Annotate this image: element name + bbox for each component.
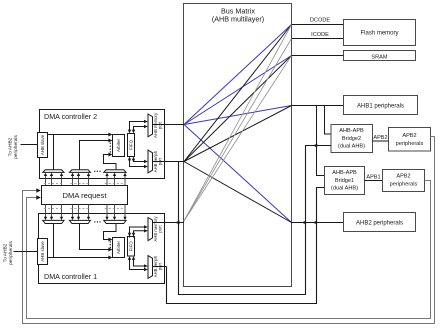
svg-text:DCODE: DCODE	[310, 18, 330, 24]
svg-text:peripherals: peripherals	[396, 141, 424, 147]
svg-text:(dual AHB): (dual AHB)	[331, 186, 358, 192]
svg-text:port: port	[158, 157, 163, 165]
svg-text:APB2: APB2	[402, 133, 416, 139]
svg-text:DMA controller 2: DMA controller 2	[44, 112, 97, 121]
svg-text:Flash memory: Flash memory	[360, 31, 398, 37]
svg-text:Bridge2: Bridge2	[342, 136, 361, 142]
svg-text:To AHB2: To AHB2	[8, 137, 14, 156]
svg-text:port: port	[158, 262, 163, 270]
svg-text:(AHB multilayer): (AHB multilayer)	[212, 15, 264, 24]
svg-text:SRAM: SRAM	[371, 54, 388, 60]
svg-text:Arbiter: Arbiter	[116, 138, 121, 151]
svg-text:AHB slave: AHB slave	[40, 134, 45, 155]
svg-text:AHB-APB: AHB-APB	[339, 128, 364, 134]
svg-text:APB1: APB1	[366, 175, 380, 181]
svg-text:To AHB2: To AHB2	[3, 243, 9, 262]
svg-text:AHB-APB: AHB-APB	[332, 170, 357, 176]
svg-text:DMA controller 1: DMA controller 1	[44, 272, 97, 281]
svg-text:(dual AHB): (dual AHB)	[338, 144, 365, 150]
svg-text:peripherals: peripherals	[390, 182, 418, 188]
svg-text:peripherals: peripherals	[8, 241, 14, 265]
svg-text:AHB1 peripherals: AHB1 peripherals	[357, 104, 404, 110]
svg-text:Arbiter: Arbiter	[116, 240, 121, 253]
svg-text:FIFO: FIFO	[128, 241, 133, 252]
svg-text:peripherals: peripherals	[13, 135, 19, 159]
svg-text:port: port	[158, 121, 163, 129]
svg-text:Bridge1: Bridge1	[335, 178, 354, 184]
svg-text:AHB2 peripherals: AHB2 peripherals	[356, 221, 403, 227]
svg-text:ICODE: ICODE	[311, 32, 329, 38]
svg-text:FIFO: FIFO	[128, 139, 133, 150]
svg-text:DMA request: DMA request	[63, 191, 108, 200]
svg-text:APB2: APB2	[396, 173, 410, 179]
svg-text:port: port	[158, 225, 163, 233]
svg-text:AHB slave: AHB slave	[40, 241, 45, 262]
svg-text:APB2: APB2	[373, 135, 387, 141]
